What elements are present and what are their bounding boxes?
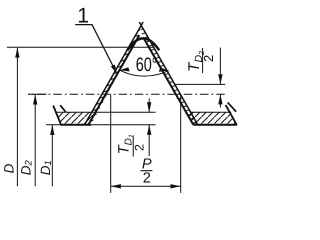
basic profile thick: left crest flat at D1 (61, 124, 91, 126)
T_D1 down arrow (147, 102, 151, 112)
hatched tolerance band right (right flank + trough) (141, 25, 237, 124)
dimension line D (16, 48, 18, 187)
D2max thin line (175, 83, 226, 85)
hatched tolerance band left (trough + left flank) (53, 25, 141, 125)
dimension line D2 (34, 95, 36, 187)
right beak flag line (228, 102, 237, 111)
D1max thin line (trough top, extends to T_D1 dimension) (56, 111, 156, 113)
60 degree arc with arrows (120, 70, 169, 76)
basic profile thick: left flank (88, 35, 139, 125)
T_D2 lower tail (219, 94, 221, 107)
T_D2 dimension line (219, 48, 221, 85)
T_D1 lower tail (148, 125, 150, 156)
P/2 dimension line (111, 185, 181, 187)
P/2 arrow right (171, 184, 181, 188)
arrow D1 (50, 125, 54, 135)
rounded root arc at top (127, 38, 159, 50)
right trough top thin line (191, 111, 232, 113)
basic profile thick: right crest flat at D1 (193, 124, 237, 126)
D1 thin line (extends left to D1 arrow and right to T_D1 dimension) (46, 124, 156, 126)
thin displaced profile: left flank (min material) (85, 22, 144, 125)
P/2 arrow left (111, 184, 121, 188)
svg-text:1: 1 (77, 3, 89, 27)
left beak flag line (60, 105, 66, 112)
pitch line dash-dot at D2 (28, 93, 225, 95)
major diameter D line (7, 46, 153, 48)
arrow D2 (33, 95, 37, 105)
left beak cut line (53, 106, 61, 126)
thin displaced profile: right flank (min material) (139, 22, 198, 125)
T_D1 up arrow (147, 125, 151, 135)
svg-text:60°: 60° (136, 54, 158, 76)
pitch line lead solid segment (28, 93, 47, 95)
basic profile thick: right flank (144, 39, 193, 125)
label P/2 fraction (140, 156, 152, 186)
svg-text:D: D (1, 163, 16, 173)
label T_D2/2 rotated fraction (186, 48, 216, 73)
P/2 extension line right (180, 95, 182, 193)
T_D2 down arrow (218, 74, 222, 84)
svg-text:2: 2 (133, 144, 147, 151)
P/2 extension line left (110, 95, 112, 193)
right beak cut line (226, 105, 237, 125)
arrow D (15, 48, 19, 58)
leader arrowhead (111, 65, 118, 75)
leader line for 1 (75, 25, 115, 71)
T_D2 up arrow (218, 94, 222, 104)
svg-text:2: 2 (201, 55, 216, 62)
T_D1 upper tail (148, 99, 150, 113)
dimension line D1 (51, 125, 53, 186)
svg-text:2: 2 (143, 170, 151, 186)
label T_D1/2 rotated fraction (116, 134, 147, 156)
